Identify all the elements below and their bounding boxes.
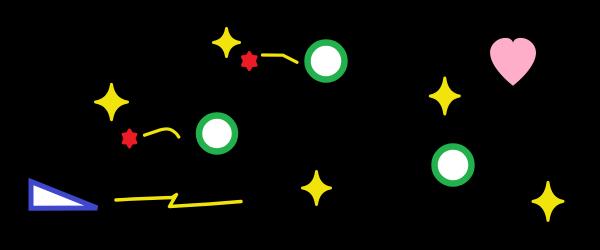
yellow zigzag line (bottom) [116, 195, 241, 207]
yellow sparkle star S1 (top middle) [214, 29, 240, 57]
red 6-point star R2 [123, 130, 136, 147]
pink heart [490, 38, 536, 86]
yellow sparkle star S2 (left) [96, 84, 128, 119]
yellow sparkle star S4 (bottom right) [533, 182, 563, 220]
yellow curve C2 (left arc) [145, 129, 179, 137]
green circle G2 (middle) [199, 116, 235, 152]
yellow sparkle star S3 (right middle) [430, 78, 459, 114]
yellow curve C1 (top squiggle) [263, 55, 298, 62]
blue right triangle [31, 182, 97, 209]
green circle G1 (top) [308, 43, 345, 80]
yellow sparkle star S5 (bottom middle) [303, 172, 331, 205]
green circle G3 (right) [435, 147, 472, 184]
red 6-point star R1 [243, 53, 257, 70]
